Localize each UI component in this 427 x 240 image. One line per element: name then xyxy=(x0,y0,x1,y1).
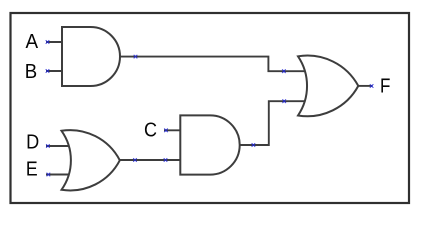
pin marker A xyxy=(46,40,50,44)
OR gate 1 (inputs D,E) xyxy=(62,130,120,190)
pin marker E xyxy=(47,173,51,177)
wire C to AND2 input 1 xyxy=(164,129,181,131)
svg-text:F: F xyxy=(380,75,390,97)
pin marker D xyxy=(46,144,50,148)
pin marker B xyxy=(46,69,50,73)
wire D to OR1 input 1 xyxy=(46,145,70,147)
pin marker F xyxy=(370,84,374,88)
pin marker OR2 top input xyxy=(282,69,286,73)
wire A to AND1 input 1 xyxy=(46,41,63,43)
pin marker AND2 output xyxy=(252,143,256,147)
wire E to OR1 input 2 xyxy=(46,174,69,176)
pin marker AND2 bottom input xyxy=(164,158,168,162)
wire AND2 output to OR2 bottom input xyxy=(240,101,306,145)
pin marker C xyxy=(164,129,168,133)
OR gate 2 (output F) xyxy=(298,56,358,117)
pin marker AND1 output xyxy=(134,55,138,59)
AND gate 2 (inputs C, OR1 out) xyxy=(180,115,239,174)
wire OR1 output to AND2 input 2 xyxy=(120,159,181,161)
AND gate 1 (inputs A,B) xyxy=(62,27,120,86)
svg-text:A: A xyxy=(26,31,39,53)
svg-text:B: B xyxy=(25,61,37,83)
svg-text:E: E xyxy=(26,158,38,180)
wire AND1 output to OR2 top input xyxy=(120,57,305,72)
wire OR2 output to F xyxy=(358,85,372,87)
pin marker OR1 output xyxy=(133,158,137,162)
wire B to AND1 input 2 xyxy=(46,70,63,72)
svg-text:D: D xyxy=(26,131,39,153)
pin marker OR2 bottom input xyxy=(282,99,286,103)
svg-text:C: C xyxy=(144,119,157,141)
